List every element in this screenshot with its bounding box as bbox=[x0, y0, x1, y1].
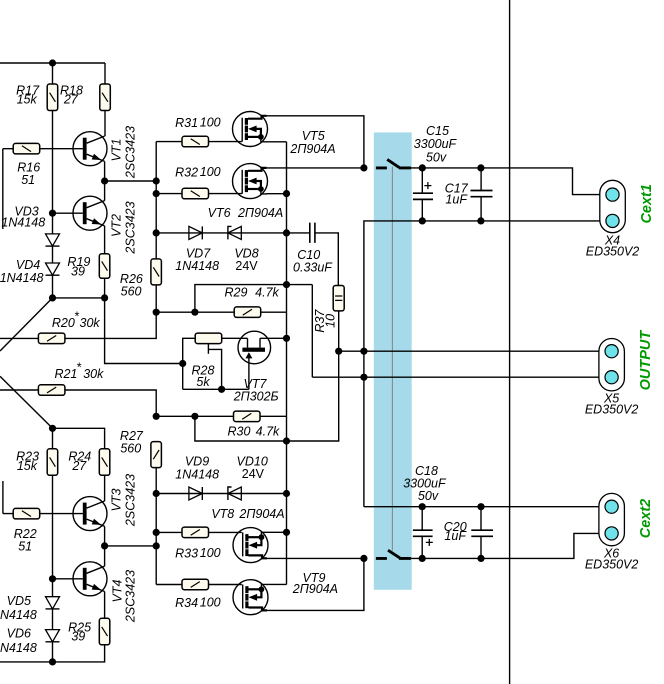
transistor VT4 bbox=[73, 562, 107, 596]
wire VT6 source bbox=[267, 193, 287, 195]
wire OUTPUT+ rail to X5 bbox=[339, 350, 607, 352]
svg-text:ED350V2: ED350V2 bbox=[585, 557, 639, 571]
svg-text:R30: R30 bbox=[228, 425, 251, 439]
svg-text:Cext1: Cext1 bbox=[639, 184, 655, 224]
svg-text:4.7k: 4.7k bbox=[255, 286, 279, 300]
wire R23 bottom to VD5 bbox=[52, 475, 54, 596]
wire VT9 drain bbox=[266, 558, 364, 610]
resistor R28 body bbox=[195, 333, 222, 344]
svg-text:10: 10 bbox=[323, 314, 337, 328]
svg-text:50v: 50v bbox=[426, 151, 447, 165]
node R30 row tap bbox=[191, 413, 198, 420]
wire R28 wiper stub bbox=[207, 343, 209, 354]
wire R22 row to VT3 base bbox=[3, 513, 83, 515]
svg-text:27: 27 bbox=[71, 459, 87, 473]
node C10 row bbox=[283, 229, 290, 236]
diode VD7 bbox=[189, 226, 202, 239]
transistor VT3 bbox=[73, 497, 107, 531]
node OUTPUT- tap bbox=[360, 374, 367, 381]
svg-text:15k: 15k bbox=[17, 459, 38, 473]
wire VT5 source jog bbox=[267, 141, 287, 143]
svg-text:VT3: VT3 bbox=[110, 488, 124, 511]
svg-text:5k: 5k bbox=[196, 375, 210, 389]
wire midpoint to lower driver node bbox=[105, 545, 157, 547]
resistor R34 body bbox=[182, 579, 209, 590]
wire C10 right to R37 bbox=[315, 233, 338, 286]
wire OUTPUT- rail to X5 bbox=[312, 376, 606, 378]
node bottom rail / VD6 bbox=[49, 658, 56, 665]
wire VD9/VD10 row bbox=[156, 493, 286, 495]
svg-text:30k: 30k bbox=[83, 367, 104, 381]
transistor VT6 (MOSFET) bbox=[233, 164, 268, 199]
wire top rail bbox=[0, 62, 105, 64]
wire VD4 row bbox=[53, 297, 105, 299]
resistor R27 body bbox=[151, 442, 162, 468]
node wiper junction bbox=[218, 386, 225, 393]
svg-text:R32: R32 bbox=[175, 166, 198, 180]
resistor R29 body bbox=[234, 307, 261, 318]
node lower link / bus bbox=[283, 437, 290, 444]
node C17 top bbox=[477, 164, 484, 171]
svg-text:2П904А: 2П904А bbox=[238, 507, 284, 521]
node R37 / OUTPUT+ rail bbox=[335, 348, 342, 355]
resistor R23 body bbox=[47, 449, 58, 476]
node link/center bus bbox=[283, 281, 290, 288]
transistor VT1 bbox=[73, 132, 107, 166]
node C17 bottom bbox=[477, 217, 484, 224]
wire left stub (to off-page) bbox=[2, 149, 4, 229]
wire R37 bottom lead bbox=[338, 311, 340, 351]
resistor R37 body bbox=[333, 286, 344, 311]
wire VT3 emitter / VT4 collector bbox=[104, 526, 106, 566]
capacitor C18 bbox=[421, 507, 423, 531]
node VT2 base junction bbox=[49, 210, 56, 217]
node VT6 source bbox=[283, 190, 290, 197]
diode VD9 bbox=[189, 487, 202, 500]
svg-text:R29: R29 bbox=[225, 286, 248, 300]
svg-text:24V: 24V bbox=[235, 259, 258, 273]
svg-text:1N4148: 1N4148 bbox=[175, 467, 219, 481]
resistor R21 body bbox=[38, 385, 65, 396]
svg-text:560: 560 bbox=[120, 441, 141, 455]
wire R18 bottom to VT1 collector bbox=[104, 111, 106, 137]
svg-text:1N4148: 1N4148 bbox=[0, 608, 37, 622]
resistor R32 body bbox=[182, 188, 209, 199]
svg-text:R34: R34 bbox=[175, 596, 198, 610]
blue highlight band bbox=[374, 132, 412, 589]
diode VD6 bbox=[46, 630, 60, 642]
svg-text:VT1: VT1 bbox=[110, 139, 124, 162]
node R28 left / link bbox=[179, 360, 186, 367]
svg-text:24V: 24V bbox=[242, 467, 265, 481]
wire lower link row to R37 bbox=[195, 351, 339, 441]
capacitor C10 bbox=[287, 232, 310, 234]
wire VT4 base bbox=[53, 578, 83, 580]
wire link down to OUTPUT- bbox=[311, 285, 313, 378]
transistor VT7 (JFET) bbox=[238, 331, 271, 389]
wire R17 top lead bbox=[52, 63, 54, 84]
wire left stub lower (to off-page) bbox=[2, 481, 4, 514]
wire VT6 drain bbox=[266, 167, 364, 169]
node VT3-VT4 midpoint bbox=[101, 542, 108, 549]
wire R20 row bbox=[0, 312, 156, 338]
node R29 row tap bbox=[191, 309, 198, 316]
resistor R16 body bbox=[13, 143, 40, 154]
svg-text:100: 100 bbox=[200, 165, 221, 179]
node upper drain rail bbox=[360, 164, 367, 171]
wire center bus x=286.5 bbox=[286, 142, 288, 585]
node VD7 row tap bbox=[153, 229, 160, 236]
wire R32 row to VT6 gate bbox=[156, 193, 242, 195]
wire VD3-VD4 bbox=[52, 246, 54, 263]
wire R31 row to VT5 gate bbox=[156, 141, 242, 143]
svg-text:1N4148: 1N4148 bbox=[175, 259, 219, 273]
svg-text:2SC3423: 2SC3423 bbox=[124, 201, 138, 254]
svg-text:R20: R20 bbox=[52, 316, 75, 330]
diode VD3 bbox=[46, 234, 60, 246]
diode VD5 bbox=[46, 597, 60, 609]
wire diagonal to lower left bbox=[0, 298, 53, 351]
svg-text:2П302Б: 2П302Б bbox=[233, 390, 279, 404]
node C18 top bbox=[419, 503, 426, 510]
wire VT9 source jog bbox=[267, 583, 287, 585]
svg-text:R21: R21 bbox=[54, 367, 77, 381]
wire to X4 pin1 bbox=[411, 168, 607, 195]
wire R30 row bbox=[156, 415, 286, 417]
resistor R30 body bbox=[234, 411, 261, 422]
node VT7 drain bbox=[283, 335, 290, 342]
wire to R28 left node bbox=[105, 298, 183, 364]
svg-text:VT4: VT4 bbox=[111, 579, 125, 602]
wire VD6 bottom bbox=[52, 642, 54, 662]
node C20 top bbox=[477, 503, 484, 510]
svg-text:50v: 50v bbox=[418, 489, 439, 503]
wire R29 row bbox=[156, 311, 286, 313]
resistor R24 body bbox=[99, 449, 110, 476]
svg-text:2П904А: 2П904А bbox=[289, 142, 335, 156]
node R19/VD4 row bbox=[101, 294, 108, 301]
svg-text:560: 560 bbox=[121, 285, 142, 299]
wire R28 left loop bbox=[183, 338, 196, 389]
wire VT1 emitter / VT2 collector bbox=[104, 161, 106, 200]
svg-text:R33: R33 bbox=[175, 546, 198, 560]
wire R33 row to VT8 gate bbox=[156, 531, 242, 533]
resistor R22 body bbox=[13, 508, 40, 519]
node OUTPUT+ tap bbox=[360, 348, 367, 355]
switch SA1 (upper pole) bbox=[376, 166, 411, 169]
wire VT7 drain to bus bbox=[260, 337, 287, 339]
wire R26 bottom bbox=[155, 285, 157, 312]
wire VT8 drain bbox=[266, 557, 364, 559]
wire R23 top lead bbox=[52, 428, 54, 449]
resistor R17 body bbox=[47, 84, 58, 111]
svg-text:51: 51 bbox=[18, 540, 32, 554]
diode VD4 bbox=[46, 263, 60, 275]
node VT4 base junction bbox=[49, 575, 56, 582]
svg-text:*: * bbox=[76, 361, 82, 375]
wire to X6 pin2 bbox=[411, 533, 607, 558]
svg-text:2SC3423: 2SC3423 bbox=[124, 474, 138, 527]
wire R34 row to VT9 gate bbox=[156, 584, 242, 586]
resistor R33 body bbox=[182, 527, 209, 538]
svg-text:15k: 15k bbox=[17, 92, 38, 106]
transistor VT5 (MOSFET) bbox=[233, 112, 268, 147]
svg-text:Cext2: Cext2 bbox=[638, 499, 654, 539]
wire R28 wiper link bbox=[208, 349, 221, 389]
wire R21 row bbox=[0, 390, 156, 416]
node R29 row bbox=[153, 309, 160, 316]
wire R24 bottom to VT3 collector bbox=[104, 475, 106, 501]
wire to R24 top bbox=[53, 428, 105, 449]
svg-text:1N4148: 1N4148 bbox=[0, 271, 44, 285]
transistor VT2 bbox=[73, 196, 107, 230]
svg-text:2SC3423: 2SC3423 bbox=[124, 570, 138, 623]
svg-text:ED350V2: ED350V2 bbox=[585, 403, 639, 417]
node lower drain rail bbox=[360, 555, 367, 562]
wire R19 bottom bbox=[104, 278, 106, 298]
node VT1-VT2 midpoint bbox=[101, 177, 108, 184]
connector X5 bbox=[599, 339, 625, 391]
switch linkage line bbox=[391, 167, 393, 551]
node C15 bottom bbox=[419, 217, 426, 224]
svg-text:0.33uF: 0.33uF bbox=[293, 260, 333, 274]
capacitor C17 bbox=[480, 168, 482, 191]
wire VT2 base bbox=[53, 212, 83, 214]
node VD10 / bus bbox=[283, 490, 290, 497]
node VT8/VT9 sources bbox=[283, 529, 290, 536]
wire driver node column upper bbox=[155, 142, 157, 259]
svg-text:VT6: VT6 bbox=[208, 206, 231, 220]
wire VD5-VD6 bbox=[52, 609, 54, 629]
svg-text:C15: C15 bbox=[426, 124, 449, 138]
svg-text:VD5: VD5 bbox=[7, 594, 31, 608]
resistor R26 body bbox=[151, 259, 162, 285]
svg-text:ED350V2: ED350V2 bbox=[586, 244, 640, 258]
svg-text:100: 100 bbox=[200, 546, 221, 560]
resistor R18 body bbox=[100, 84, 111, 111]
node C15 top bbox=[419, 164, 426, 171]
wire VT8 source bbox=[267, 531, 287, 533]
wire bottom rail bbox=[0, 645, 105, 662]
svg-text:39: 39 bbox=[71, 630, 85, 644]
resistor R31 body bbox=[182, 136, 209, 147]
svg-text:VD6: VD6 bbox=[7, 627, 31, 641]
node R33 tap bbox=[153, 529, 160, 536]
svg-text:1uF: 1uF bbox=[444, 529, 467, 543]
svg-text:30k: 30k bbox=[80, 316, 101, 330]
resistor R20 body bbox=[38, 333, 65, 344]
svg-text:VT2: VT2 bbox=[110, 214, 124, 237]
wire midpoint to driver node bbox=[105, 180, 157, 182]
svg-text:2П904А: 2П904А bbox=[292, 582, 338, 596]
wire VT5 drain bbox=[266, 116, 364, 168]
wire lower driver column bbox=[155, 468, 157, 585]
wire R17 bottom to VD3 bbox=[52, 111, 54, 234]
svg-text:R31: R31 bbox=[175, 116, 198, 130]
zener diode VD8 bbox=[228, 226, 241, 239]
wire upper link row bbox=[195, 285, 312, 313]
capacitor C15 bbox=[421, 168, 423, 193]
svg-text:27: 27 bbox=[63, 92, 79, 106]
node VD9 row tap bbox=[153, 490, 160, 497]
svg-text:100: 100 bbox=[200, 116, 221, 130]
wire R28 right to VT7 bbox=[222, 337, 248, 339]
svg-text:1N4148: 1N4148 bbox=[0, 641, 37, 655]
wire VD7/VD8 row bbox=[156, 232, 286, 234]
svg-text:VD4: VD4 bbox=[16, 258, 40, 272]
svg-text:1uF: 1uF bbox=[445, 192, 468, 206]
wire X4 pin2 rail down middle bbox=[364, 221, 607, 507]
connector X4 bbox=[600, 180, 626, 232]
capacitor C20 bbox=[480, 507, 482, 531]
wire diagonal from upper left bbox=[0, 376, 53, 428]
transistor VT9 (MOSFET) bbox=[233, 580, 268, 615]
switch SA1 (lower pole) bbox=[376, 557, 411, 560]
wire R16 row to VT1 base bbox=[3, 148, 83, 150]
resistor R25 body bbox=[99, 618, 110, 645]
zener diode VD10 bbox=[228, 487, 241, 500]
wire R18 top lead bbox=[104, 63, 106, 84]
wire VD4 bottom bbox=[52, 275, 54, 298]
node R32 tap bbox=[153, 190, 160, 197]
connector X6 bbox=[599, 493, 625, 545]
node R23 top bbox=[49, 425, 56, 432]
svg-text:4.7k: 4.7k bbox=[256, 425, 280, 439]
svg-text:OUTPUT: OUTPUT bbox=[638, 330, 654, 391]
resistor R19 body bbox=[99, 254, 110, 278]
svg-text:51: 51 bbox=[21, 173, 35, 187]
wire C18 top rail to X6 bbox=[364, 506, 607, 508]
svg-text:2П904А: 2П904А bbox=[237, 206, 283, 220]
vertical border line bbox=[509, 0, 511, 684]
node top rail / R17 bbox=[49, 59, 56, 66]
svg-text:VT8: VT8 bbox=[211, 507, 234, 521]
wire VT4 emitter to R25 bbox=[104, 592, 106, 619]
svg-text:3300uF: 3300uF bbox=[414, 137, 458, 151]
svg-text:100: 100 bbox=[200, 595, 221, 609]
svg-text:1N4148: 1N4148 bbox=[1, 216, 45, 230]
wire VT2 emitter to R19 bbox=[104, 226, 106, 254]
svg-text:39: 39 bbox=[71, 264, 85, 278]
node R30 row left bbox=[153, 413, 160, 420]
node C20 bottom bbox=[477, 555, 484, 562]
transistor VT8 (MOSFET) bbox=[233, 528, 268, 563]
node C18 bottom bbox=[419, 555, 426, 562]
wire R28 bottom row bbox=[183, 388, 249, 390]
svg-text:2SC3423: 2SC3423 bbox=[124, 126, 138, 179]
